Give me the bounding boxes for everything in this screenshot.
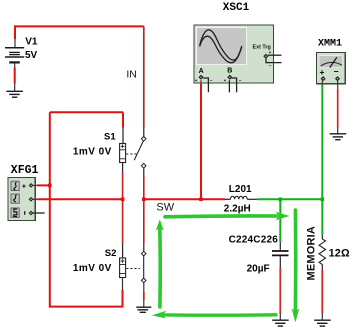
wire XMM1 minus to ground bbox=[337, 81, 339, 134]
ground under capacitor bbox=[272, 320, 289, 326]
svg-text:−: − bbox=[269, 63, 272, 68]
label 5V bbox=[25, 50, 38, 61]
svg-text:−: − bbox=[239, 78, 242, 83]
wire XMM junction to resistor bbox=[321, 199, 323, 239]
svg-text:MEMORIA: MEMORIA bbox=[306, 226, 318, 281]
svg-text:C224C226: C224C226 bbox=[229, 235, 279, 246]
wire L201 to XMM junction green bbox=[257, 198, 322, 200]
oscilloscope XSC1 bbox=[194, 25, 274, 83]
node XMM junction bbox=[321, 198, 325, 202]
terminal B bbox=[224, 68, 242, 93]
annotation green loop bottom arrow bbox=[152, 311, 276, 319]
switch S1 body bbox=[120, 144, 126, 163]
switch S2 lever closed bbox=[141, 251, 146, 282]
node XFG plus junction bbox=[48, 184, 52, 188]
function generator XFG1 bbox=[8, 178, 45, 221]
svg-text:L201: L201 bbox=[229, 184, 252, 195]
node XFG common junction bbox=[121, 198, 125, 202]
label 20uF bbox=[247, 263, 270, 274]
dashed link S1 bbox=[126, 153, 138, 155]
label XMM1 bbox=[318, 39, 342, 50]
svg-text:1mV 0V: 1mV 0V bbox=[73, 147, 112, 158]
svg-text:S1: S1 bbox=[104, 132, 116, 143]
node capacitor junction bbox=[279, 198, 283, 202]
label S1 bbox=[104, 132, 116, 143]
wire battery top to IN bbox=[15, 26, 144, 39]
wire S1 lever to SW junction to S2 lever bbox=[143, 168, 145, 252]
node SW junction bbox=[142, 198, 146, 202]
terminal Ext Trig bbox=[264, 50, 282, 68]
label V1 bbox=[25, 36, 38, 47]
svg-text:20µF: 20µF bbox=[247, 263, 270, 274]
svg-text:+: + bbox=[320, 67, 325, 77]
svg-text:+: + bbox=[195, 78, 198, 83]
node scope A junction bbox=[199, 198, 203, 202]
resistor 12ohm bbox=[319, 239, 325, 265]
svg-text:XSC1: XSC1 bbox=[223, 2, 250, 14]
wire scope A to bus bbox=[200, 80, 202, 199]
wire XFG1 plus to loop bbox=[32, 184, 51, 186]
label Ext Trig bbox=[253, 44, 271, 50]
svg-text:−: − bbox=[210, 78, 213, 83]
wire resistor to ground bbox=[321, 265, 323, 321]
wire left loop bbox=[50, 112, 123, 306]
label S2 value 1mV 0V bbox=[73, 263, 112, 274]
svg-text:B: B bbox=[227, 68, 232, 75]
wire capacitor branch bbox=[279, 199, 281, 250]
switch S2 body bbox=[120, 258, 126, 278]
label 12ohm bbox=[329, 248, 350, 260]
label XFG1 bbox=[11, 164, 39, 177]
multimeter XMM1 bbox=[316, 52, 345, 83]
svg-text:+: + bbox=[22, 181, 27, 190]
svg-text:5V: 5V bbox=[25, 50, 38, 61]
svg-text:+: + bbox=[224, 78, 227, 83]
battery V1 bbox=[5, 39, 24, 68]
label 2.2uH bbox=[224, 203, 251, 214]
ground under resistor bbox=[314, 320, 331, 326]
svg-text:XFG1: XFG1 bbox=[11, 164, 39, 177]
capacitor C224C226 bbox=[272, 251, 289, 255]
svg-text:XMM1: XMM1 bbox=[318, 39, 342, 50]
svg-text:IN: IN bbox=[126, 69, 136, 81]
label S1 value 1mV 0V bbox=[73, 147, 112, 158]
annotation green loop top arrow bbox=[165, 212, 290, 221]
svg-text:SW: SW bbox=[156, 201, 174, 213]
label IN bbox=[126, 69, 136, 81]
wire battery to ground bbox=[14, 68, 16, 92]
wire S1 body top bbox=[122, 112, 124, 143]
svg-text:−: − bbox=[334, 67, 339, 77]
wire S2 body bottom bbox=[122, 278, 124, 291]
svg-text:2.2µH: 2.2µH bbox=[224, 203, 251, 214]
svg-text:1mV 0V: 1mV 0V bbox=[73, 263, 112, 274]
ground under S2 bbox=[136, 307, 151, 312]
label SW bbox=[156, 201, 174, 213]
wire capacitor to ground bbox=[279, 256, 281, 320]
svg-text:+: + bbox=[269, 50, 272, 55]
wire IN vertical to S1 lever bbox=[143, 26, 145, 136]
wire XMM1 plus down bbox=[321, 81, 323, 200]
annotation green loop right arrow bbox=[292, 210, 300, 323]
svg-text:S2: S2 bbox=[105, 248, 117, 259]
svg-text:12Ω: 12Ω bbox=[329, 248, 350, 260]
svg-text:A: A bbox=[199, 68, 204, 75]
label L201 bbox=[229, 184, 252, 195]
terminal A bbox=[195, 68, 213, 92]
inductor L201 bbox=[225, 196, 257, 199]
wire S2 lever to ground bbox=[143, 283, 145, 308]
ground under battery bbox=[6, 91, 23, 97]
wire S1 body bottom to S2 body top bbox=[122, 163, 124, 259]
wire bus SW to L201 bbox=[144, 198, 225, 200]
dashed link S2 bbox=[126, 268, 140, 270]
ground under XMM1 bbox=[330, 134, 347, 140]
switch S1 lever bbox=[134, 137, 146, 169]
label S2 bbox=[105, 248, 117, 259]
annotation green loop left line bbox=[156, 220, 164, 308]
label XSC1 bbox=[223, 2, 250, 14]
label MEMORIA bbox=[306, 226, 318, 281]
label C224C226 bbox=[229, 235, 279, 246]
wire XFG1 common to bus bbox=[32, 198, 123, 200]
svg-text:V1: V1 bbox=[25, 36, 38, 47]
